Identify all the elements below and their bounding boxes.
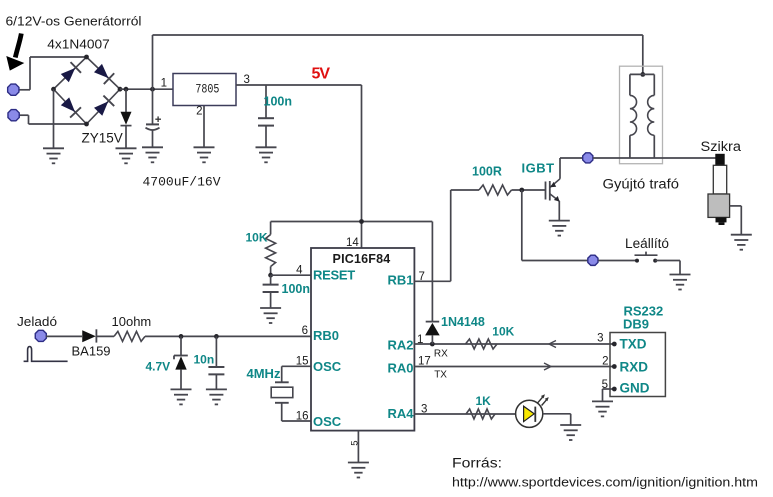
svg-text:DB9: DB9 (623, 317, 649, 332)
svg-text:1: 1 (417, 334, 423, 346)
svg-text:4MHz: 4MHz (247, 366, 281, 381)
svg-text:4x1N4007: 4x1N4007 (47, 37, 110, 52)
svg-text:6: 6 (302, 325, 308, 337)
svg-text:OSC: OSC (313, 414, 342, 429)
svg-text:RA2: RA2 (387, 338, 413, 353)
svg-text:7805: 7805 (195, 83, 219, 97)
svg-text:RA0: RA0 (387, 361, 413, 376)
svg-text:BA159: BA159 (72, 344, 111, 359)
svg-text:4700uF/16V: 4700uF/16V (143, 175, 221, 190)
svg-text:3: 3 (597, 333, 603, 345)
svg-text:100n: 100n (264, 95, 293, 109)
svg-text:http://www.sportdevices.com/ig: http://www.sportdevices.com/ignition/ign… (452, 475, 758, 490)
svg-text:16: 16 (296, 411, 309, 423)
svg-text:Forrás:: Forrás: (452, 456, 502, 471)
svg-text:10n: 10n (194, 353, 215, 367)
svg-text:15: 15 (296, 356, 309, 368)
svg-text:IGBT: IGBT (522, 161, 555, 176)
svg-text:10K: 10K (246, 231, 268, 245)
svg-text:RXD: RXD (620, 360, 649, 375)
svg-text:1N4148: 1N4148 (441, 315, 485, 329)
svg-text:3: 3 (244, 74, 250, 86)
svg-text:4.7V: 4.7V (146, 360, 171, 374)
svg-text:14: 14 (346, 237, 359, 249)
svg-text:GND: GND (620, 381, 650, 396)
svg-text:PIC16F84: PIC16F84 (333, 252, 391, 266)
svg-text:3: 3 (421, 404, 427, 416)
svg-text:RX: RX (434, 348, 448, 359)
svg-text:6/12V-os Generátorról: 6/12V-os Generátorról (6, 15, 142, 29)
svg-text:OSC: OSC (313, 359, 342, 374)
svg-text:17: 17 (418, 356, 431, 368)
svg-text:RB0: RB0 (313, 328, 339, 343)
svg-text:Gyújtó trafó: Gyújtó trafó (603, 177, 680, 192)
svg-text:RA4: RA4 (387, 406, 414, 421)
svg-text:Leállító: Leállító (625, 236, 669, 251)
svg-text:100R: 100R (472, 165, 502, 179)
svg-text:1K: 1K (476, 394, 492, 408)
svg-text:10K: 10K (492, 325, 514, 339)
svg-text:RB1: RB1 (387, 273, 413, 288)
svg-text:7: 7 (419, 271, 425, 283)
svg-text:5: 5 (349, 441, 360, 446)
svg-text:10ohm: 10ohm (112, 314, 152, 329)
svg-text:Jeladó: Jeladó (17, 314, 57, 329)
svg-text:Szikra: Szikra (701, 139, 742, 154)
svg-text:5V: 5V (312, 66, 331, 83)
svg-text:TXD: TXD (620, 337, 647, 352)
svg-text:ZY15V: ZY15V (82, 131, 123, 146)
svg-text:TX: TX (434, 369, 447, 380)
svg-text:1: 1 (161, 78, 167, 90)
svg-text:4: 4 (296, 265, 303, 277)
svg-text:2: 2 (196, 106, 202, 118)
svg-text:5: 5 (602, 379, 608, 391)
svg-text:2: 2 (602, 356, 608, 368)
svg-text:RESET: RESET (313, 268, 355, 283)
svg-text:100n: 100n (282, 282, 311, 296)
